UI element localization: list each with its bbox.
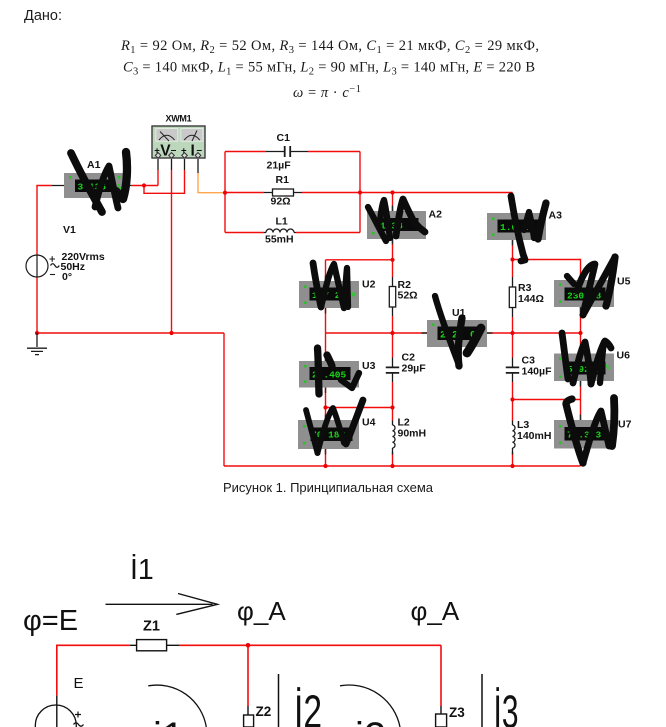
svg-text:φ_A: φ_A: [411, 596, 460, 626]
svg-text:İ1: İ1: [130, 554, 154, 586]
svg-text:A1: A1: [87, 159, 101, 171]
svg-text:L1: L1: [276, 216, 288, 228]
svg-text:Дано:: Дано:: [24, 8, 62, 24]
svg-text:0°: 0°: [62, 271, 72, 283]
svg-text:I: I: [191, 143, 195, 160]
svg-text:U5: U5: [617, 276, 631, 288]
svg-text:Рисунок 1. Принципиальная схем: Рисунок 1. Принципиальная схема: [223, 480, 434, 495]
svg-text:U3: U3: [362, 360, 376, 372]
svg-text:R1 = 92 Ом, R2 = 52 Ом, R3 = 1: R1 = 92 Ом, R2 = 52 Ом, R3 = 144 Ом, C1 …: [120, 38, 539, 56]
svg-text:İ2: İ2: [294, 686, 322, 727]
svg-text:92Ω: 92Ω: [271, 196, 291, 208]
svg-text:U6: U6: [617, 350, 631, 362]
svg-text:V: V: [351, 290, 356, 299]
svg-text:C1: C1: [277, 132, 291, 144]
svg-text:V1: V1: [63, 224, 76, 236]
svg-text:144Ω: 144Ω: [518, 293, 544, 305]
svg-text:E: E: [74, 675, 84, 692]
svg-text:C3 = 140 мкФ, L1 = 55 мГн, L2: C3 = 140 мкФ, L1 = 55 мГн, L2 = 90 мГн, …: [123, 60, 535, 78]
svg-text:90mH: 90mH: [398, 428, 427, 440]
svg-text:V: V: [606, 363, 611, 372]
svg-text:Z3: Z3: [449, 705, 465, 720]
svg-text:21µF: 21µF: [267, 160, 292, 172]
svg-text:XWM1: XWM1: [166, 114, 192, 124]
svg-text:İ3: İ3: [494, 686, 519, 727]
svg-text:φ_A: φ_A: [237, 596, 286, 626]
svg-text:φ=E: φ=E: [23, 605, 78, 637]
svg-text:i1: i1: [153, 715, 184, 727]
svg-text:i2: i2: [355, 715, 386, 727]
svg-text:140mH: 140mH: [517, 430, 551, 442]
svg-text:U7: U7: [618, 419, 632, 431]
svg-text:Z2: Z2: [256, 704, 272, 719]
svg-text:A2: A2: [429, 209, 443, 221]
svg-text:R1: R1: [276, 174, 290, 186]
svg-text:140µF: 140µF: [522, 366, 553, 378]
svg-text:29µF: 29µF: [402, 363, 427, 375]
svg-text:U4: U4: [362, 417, 376, 429]
svg-text:55mH: 55mH: [265, 234, 294, 246]
svg-text:52Ω: 52Ω: [398, 290, 418, 302]
svg-text:Z1: Z1: [143, 619, 160, 635]
svg-text:A3: A3: [549, 210, 563, 222]
svg-text:U2: U2: [362, 279, 376, 291]
